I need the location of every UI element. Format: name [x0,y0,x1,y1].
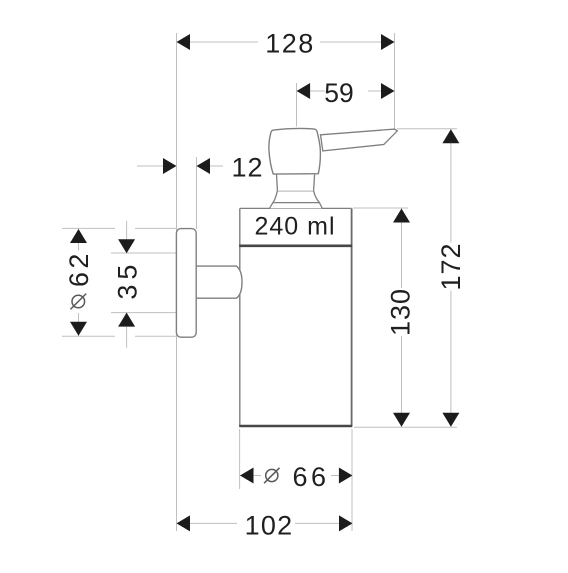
arrow 102 right [339,515,353,531]
extension line spout tip x=394.5 [394,33,396,129]
extension line bottle bottom y=427.3 [354,426,457,428]
arrow 35 top pointing down [118,239,135,253]
arrow 130 bottom [393,413,410,427]
arrow dia66 right [339,468,353,484]
extension line 35 top y=253 [111,252,176,254]
extension line bottle left bottom x=239.6 [239,429,241,489]
extension line bottle right bottom x=352 [351,429,353,531]
extension line plate bottom y=336.2 [62,335,115,337]
extension line center axis x=296.5 [296,83,298,127]
label dia66 [261,465,331,486]
pump neck [277,174,315,191]
arrows [70,34,459,531]
dimension line 130 [401,209,403,428]
pump lever spout [321,129,398,151]
svg-text:59: 59 [324,78,353,108]
svg-text:35: 35 [113,260,143,300]
svg-text:172: 172 [436,242,466,290]
label 130 rotated [386,288,416,336]
wall arm [196,266,242,298]
dimension line dia66 [240,475,352,477]
dimension line 128 [177,41,395,43]
arrow dia66 left [240,468,254,484]
label dia62 rotated [64,250,94,287]
arrow 59 left [297,83,311,99]
extension line plate top y=228.4 [62,227,115,229]
dimension line 102 [177,522,353,524]
extension line plate right x=196.5 [196,157,198,229]
extension line 35 bottom y=312.6 [111,312,176,314]
arrow 102 left [177,515,191,531]
arrow 130 top [393,209,410,223]
wall plate [176,229,196,338]
arrow 128 right [381,34,395,50]
extension line spout top y=128.8 [397,128,457,130]
extension line bottle top y=208 [353,207,408,209]
arrow 128 left [177,34,191,50]
arrow 59 right [381,83,395,99]
dimension line 172 [450,129,452,427]
dia symbol 66 [264,468,279,483]
svg-text:102: 102 [245,511,294,541]
label 102 [237,514,295,535]
pump cap [269,128,320,174]
pump flare skirt [270,191,323,209]
svg-text:66: 66 [292,462,329,492]
svg-text:130: 130 [386,288,416,336]
extension line wall left x=176.5 [176,33,178,531]
label 128 [258,32,320,53]
svg-text:12: 12 [231,152,263,182]
bottle bottom heavy line [239,425,352,428]
dimension line 12 [137,165,177,167]
bottle body [239,208,352,426]
arrow 172 bottom [442,413,459,427]
arrow dia62 bottom [70,322,87,336]
label 172 rotated [436,242,466,290]
dia symbol 62 [69,286,88,314]
svg-text:240 ml: 240 ml [254,213,335,241]
svg-text:128: 128 [265,29,315,59]
dimension line dia62 [78,229,80,337]
arrow 35 bottom pointing up [118,313,135,327]
label 59 [325,81,368,102]
dimension line 59 [297,90,395,92]
arrow 12 left pointing right [163,158,177,174]
label 35 rotated [113,260,143,300]
arrow 12 right pointing left [197,158,211,174]
arrow 172 top [442,129,459,143]
bottle shoulder heavy line [239,245,352,248]
svg-text:62: 62 [64,250,94,287]
arrow dia62 top [70,229,87,243]
dimension line 35 [126,221,128,253]
